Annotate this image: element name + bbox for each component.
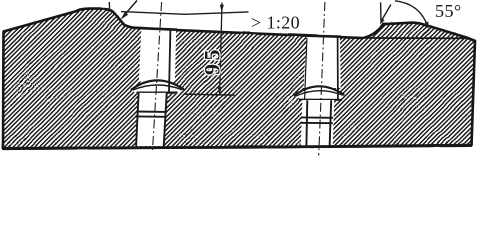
dimension line 95 [220,3,222,95]
pipe 2 joint lines [301,116,333,118]
pipe 2 lower walls [305,100,308,146]
pipe 1 hub inner arc [133,85,183,90]
pipe 2 riser walls [337,37,339,99]
svg-text:95: 95 [200,46,225,75]
pipe 2 hub base line [299,99,342,101]
pipe 1 hub outer arc [131,80,184,90]
svg-text:> 1:20: > 1:20 [251,13,300,33]
pipe 1 right wall (riser) [169,30,170,92]
pipe 1 joint lines [136,111,165,113]
pipe 1 hub base line [137,91,178,93]
slab cross-section (hatched body) [3,9,475,149]
pipe 1 centerline [152,2,161,152]
55 degree arc with arrow [395,1,428,27]
internal slab-top line under right mound [361,37,468,40]
pipe 2 centerline [319,2,325,156]
pipe 2 surface line over hole [300,36,341,37]
pipe 2 upper hole [303,37,340,88]
pipe 1 lower hole [136,93,167,146]
pipe 2 hub outer arc [294,86,345,96]
small arrow at vertex [380,18,385,24]
pipe 1 surface line over hole [135,28,177,30]
pipe 2 hub inner arc [296,91,343,97]
55 degree leg [381,5,391,21]
leader arrow into dip [123,1,137,17]
pipe 2 lower hole [301,100,335,146]
55 degree annotation: vertical leg [380,2,382,22]
bottom edge (redrawn thick across pipe bands) [3,145,472,148]
pipe 2 hub (bell) [294,86,345,100]
svg-text:55°: 55° [435,1,462,21]
pipe 1 hub (bell) [131,80,184,93]
pipe 1 upper hole (white) [139,28,176,81]
crest tick [108,2,110,10]
pipe 1 lower walls [136,93,139,146]
reference line at hub level [184,94,235,95]
slope leader line (1:20) [121,12,249,15]
